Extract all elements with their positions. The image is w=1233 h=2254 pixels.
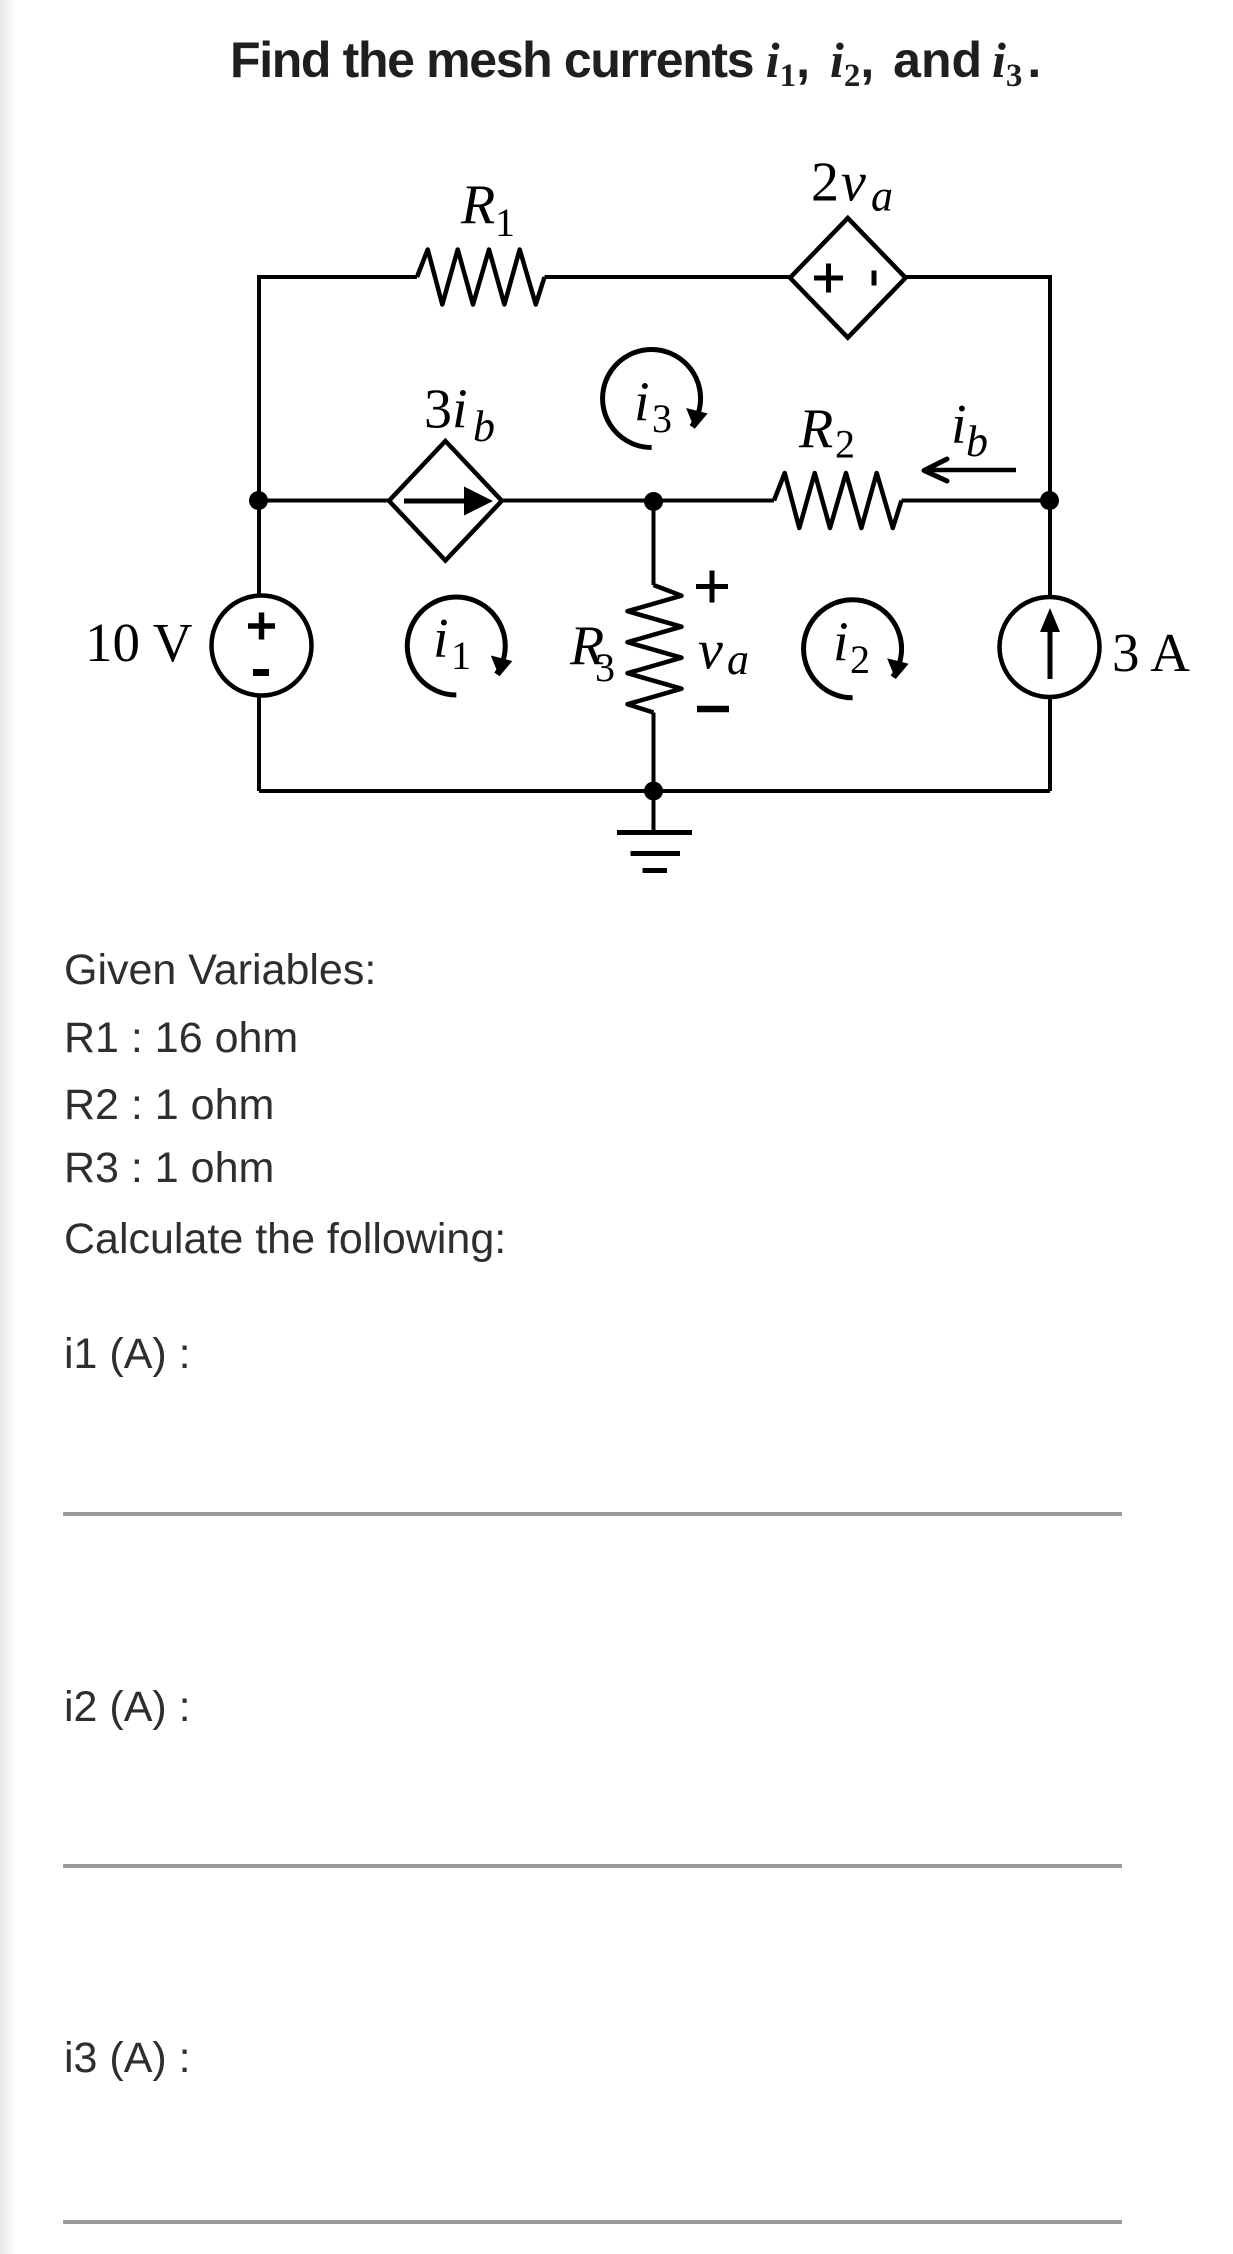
svg-text:1: 1 xyxy=(495,200,515,245)
svg-text:i: i xyxy=(833,612,849,674)
svg-text:2: 2 xyxy=(835,422,855,467)
svg-text:b: b xyxy=(473,402,495,451)
svg-text:3: 3 xyxy=(595,645,615,690)
svg-text:i: i xyxy=(452,379,468,441)
svg-text:i: i xyxy=(634,372,650,434)
svg-text:3: 3 xyxy=(652,396,672,441)
svg-text:b: b xyxy=(966,417,988,466)
svg-text:2: 2 xyxy=(850,637,870,682)
svg-text:i: i xyxy=(433,608,449,670)
svg-text:2: 2 xyxy=(811,152,839,214)
svg-text:10 V: 10 V xyxy=(85,612,193,673)
svg-text:3: 3 xyxy=(424,379,452,441)
svg-text:1: 1 xyxy=(451,633,471,678)
svg-text:R: R xyxy=(798,398,833,460)
svg-text:3 A: 3 A xyxy=(1112,622,1190,683)
svg-text:i: i xyxy=(951,394,967,456)
svg-text:v: v xyxy=(841,152,866,214)
svg-text:R: R xyxy=(460,174,495,236)
svg-text:a: a xyxy=(727,635,749,684)
svg-text:v: v xyxy=(698,620,723,682)
svg-text:a: a xyxy=(871,172,893,221)
